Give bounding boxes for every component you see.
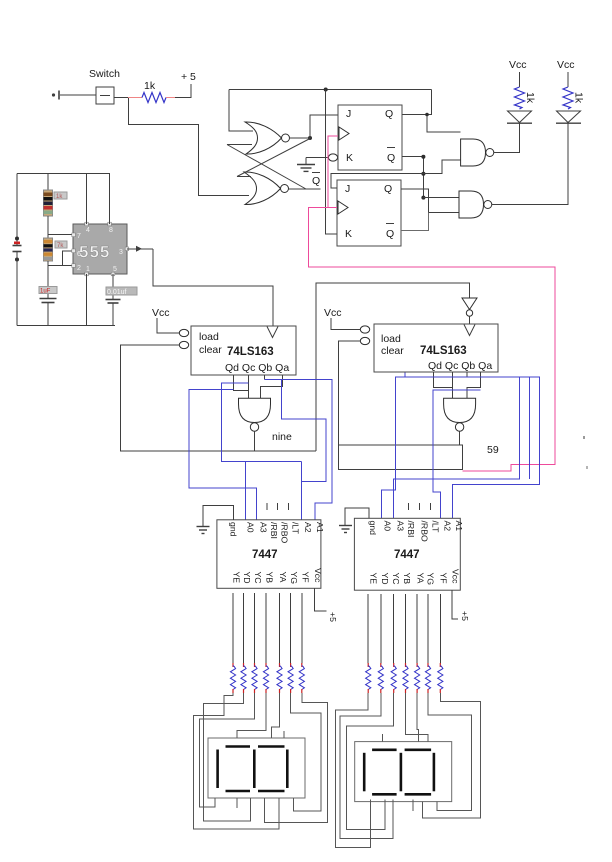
blue Qc to A3 digit2 <box>394 377 520 518</box>
wire 555 pin7 <box>48 234 73 236</box>
wires 7447 U10 outputs to resistors <box>233 593 302 664</box>
wire Qd stub U8 <box>434 372 453 388</box>
svg-text:Vcc: Vcc <box>557 59 575 71</box>
wire YF wrap DS2 <box>423 693 481 818</box>
wire Vcc to load oval <box>157 318 180 333</box>
NAND gate U9 59 detect <box>444 398 499 456</box>
capacitor C1 <box>39 266 57 326</box>
svg-text:YF: YF <box>439 573 449 584</box>
wire YB to DS1 top <box>237 693 266 738</box>
wire YD wrap DS1 <box>204 693 251 821</box>
wire NANDB out to LED2 <box>492 123 568 204</box>
stray mark right margin b <box>586 466 588 469</box>
wire FF1 Qbar net <box>402 157 423 198</box>
svg-text:5: 5 <box>113 266 117 273</box>
wire NANDA out to LED1 <box>494 123 520 152</box>
wire YA to DS1 top <box>271 693 279 738</box>
svg-text:nine: nine <box>272 431 292 443</box>
svg-text:Q: Q <box>385 108 393 120</box>
svg-text:Vcc: Vcc <box>509 59 527 71</box>
counter 74LS163 U8 <box>374 324 498 372</box>
label Qbar latch <box>312 173 320 188</box>
wire 555 left rail lower <box>16 252 18 326</box>
pin stub DS2 bottom <box>412 799 414 810</box>
wire NOR1 output to node <box>290 137 311 139</box>
svg-text:/RBO: /RBO <box>420 521 430 542</box>
wire battery to switch <box>60 94 96 96</box>
svg-text:1k: 1k <box>144 80 156 92</box>
svg-text:YE: YE <box>369 573 379 585</box>
svg-text:7: 7 <box>77 233 81 240</box>
svg-text:6: 6 <box>77 251 81 258</box>
wire 555 pin1 to rail <box>86 274 88 326</box>
wire NOR1 inputs <box>227 90 253 145</box>
svg-text:YG: YG <box>426 573 436 586</box>
svg-text:gnd: gnd <box>229 522 239 537</box>
pin stub LT U11 <box>430 503 432 510</box>
svg-text:YC: YC <box>253 572 263 584</box>
blue Qa to A2 digit2 <box>433 390 481 518</box>
wire 555 left rail upper <box>16 174 18 246</box>
wire FF2 Q to NAND B input2 <box>401 189 460 212</box>
svg-text:clear: clear <box>199 344 222 356</box>
wire NOR2 input stub <box>237 176 251 178</box>
resistor R2 1k vertical <box>515 87 537 109</box>
svg-text:gnd: gnd <box>368 521 378 536</box>
svg-text:K: K <box>346 152 353 164</box>
wire YE wrap DS2 <box>336 693 371 848</box>
svg-text:Vcc: Vcc <box>313 568 323 583</box>
svg-text:0.01uf: 0.01uf <box>107 289 127 296</box>
capacitor C2 0.01uF <box>106 274 138 326</box>
wire Vcc2 to load oval <box>331 318 361 330</box>
wires 7447 U11 outputs to resistors <box>368 594 440 664</box>
resistor R5 color bands <box>44 238 68 261</box>
blue Qd to A3 digit1 <box>189 390 257 520</box>
svg-text:YE: YE <box>232 572 242 584</box>
svg-text:clear: clear <box>381 345 404 357</box>
wire carry to counter2 clock <box>316 283 470 451</box>
svg-text:7447: 7447 <box>394 549 420 561</box>
svg-text:Vcc: Vcc <box>451 569 461 584</box>
wire clear2 feedback <box>339 341 463 469</box>
wire Qc stub U8 <box>451 372 453 398</box>
LED D1 <box>507 111 532 123</box>
wire Qa stub U5 <box>261 375 283 398</box>
svg-text:YB: YB <box>265 572 275 584</box>
pin stub DS1 bottom <box>236 798 238 808</box>
svg-text:Qd Qc Qb Qa: Qd Qc Qb Qa <box>225 362 289 374</box>
svg-text:1: 1 <box>86 266 90 273</box>
svg-text:+5: +5 <box>328 612 338 622</box>
wire Qa stub U8 <box>467 372 481 398</box>
svg-text:A3: A3 <box>396 521 406 532</box>
svg-text:1k: 1k <box>56 194 63 200</box>
svg-text:59: 59 <box>487 444 499 456</box>
svg-text:7k: 7k <box>57 243 64 249</box>
display DS1 seven segment <box>208 738 305 798</box>
wire 555 top rail <box>17 173 110 175</box>
svg-text:A2: A2 <box>303 522 313 533</box>
bubble load U8 <box>360 326 369 333</box>
NAND gate U3A <box>461 139 494 166</box>
wire clear feedback left <box>121 345 316 451</box>
wire Qb stub U8 <box>466 372 468 377</box>
wire Qbar to NAND A input2 <box>423 160 460 174</box>
wire node up to FF1 J <box>310 115 338 138</box>
svg-text:YF: YF <box>300 572 310 583</box>
blue branch column digit2 <box>528 377 530 479</box>
wire YE wrap DS1 <box>194 693 280 829</box>
svg-text:Q: Q <box>312 175 320 187</box>
NAND gate U3B <box>459 191 492 218</box>
ground digit1 <box>197 506 234 534</box>
timer 555 U4 <box>72 222 129 276</box>
Vcc LED2 <box>557 59 575 87</box>
svg-text:K: K <box>345 228 352 240</box>
pin stub LT U10 <box>288 503 290 510</box>
svg-text:YA: YA <box>278 572 288 583</box>
ground digit2 <box>339 508 369 533</box>
wire Vcc to 555 pins 4 8 <box>87 174 110 225</box>
wire FF2 Qbar stub <box>401 213 429 231</box>
svg-text:A1: A1 <box>315 522 325 533</box>
wire R4 top lead <box>47 174 49 191</box>
wire cross-coupling diagonal NOR2out to NOR1 in <box>227 145 306 190</box>
ground near FF1 K <box>297 158 315 172</box>
wire 555 output pin3 <box>127 246 273 326</box>
svg-text:YG: YG <box>289 572 299 585</box>
svg-text:A0: A0 <box>246 522 256 533</box>
wire long vertical node to FF2 K <box>326 90 337 235</box>
svg-text:YB: YB <box>402 573 412 585</box>
inverter U6 <box>462 298 477 324</box>
NOR gate U1A (upper) <box>245 122 290 154</box>
resistor R1 1k <box>128 80 175 103</box>
battery / input terminal <box>52 91 59 100</box>
capacitor C0 electrolytic on left rail <box>13 237 22 262</box>
stray mark right margin a <box>583 436 585 439</box>
svg-text:A1: A1 <box>454 521 464 532</box>
wire resistor to +5 <box>175 84 191 98</box>
pin ticks U10 bottom <box>0 0 1 1</box>
svg-text:YD: YD <box>380 573 390 585</box>
wire Qb stub U5 <box>263 375 265 380</box>
resistor row digit2 <box>366 663 443 693</box>
wire YC wrap DS1 <box>200 693 255 807</box>
resistor row digit1 <box>230 663 304 693</box>
wire clock pink net <box>309 136 556 471</box>
svg-text:A0: A0 <box>383 521 393 532</box>
wire YF wrap DS1 <box>265 693 328 823</box>
svg-text:Q: Q <box>387 152 395 164</box>
wire Qc stub U5 <box>248 375 250 398</box>
svg-text:load: load <box>381 333 401 345</box>
wire nine out <box>254 431 256 451</box>
svg-text:4: 4 <box>86 227 90 234</box>
svg-text:1uF: 1uF <box>40 289 51 295</box>
svg-text:Vcc: Vcc <box>324 307 342 319</box>
pin stub RBO U11 <box>419 503 421 510</box>
svg-text:Q: Q <box>384 183 392 195</box>
svg-text:Vcc: Vcc <box>152 307 170 319</box>
wire YG wrap DS1 <box>291 693 321 811</box>
bubble load U5 <box>179 329 188 336</box>
wire Qbar to NAND B input1 <box>423 197 460 199</box>
switch S1 <box>89 68 120 104</box>
wire YA to DS2 top <box>417 693 418 742</box>
Vcc LED1 <box>509 59 527 87</box>
svg-text:J: J <box>346 108 351 120</box>
svg-text:555: 555 <box>79 243 110 262</box>
pin stub RBI U11 <box>408 503 410 510</box>
node FF1 Qbar b <box>421 172 425 176</box>
blue A2 column digit1 <box>301 462 303 520</box>
wire NOR2 output <box>289 188 321 190</box>
pin stub DS2 top <box>381 734 383 742</box>
node FF1 Qbar c <box>421 196 425 200</box>
pin stub RBO U10 <box>277 503 279 510</box>
wire YB to DS2 top <box>406 693 429 742</box>
wire switch node down to NOR2 input <box>129 98 250 196</box>
NAND gate U7 nine detect <box>239 398 293 443</box>
blue Qb to A1 digit2 <box>452 377 539 519</box>
svg-text:74LS163: 74LS163 <box>420 345 467 357</box>
svg-text:1k: 1k <box>524 92 536 104</box>
svg-text:+ 5: + 5 <box>181 71 196 83</box>
blue Qb to A1 digit1 <box>264 380 332 520</box>
svg-text:/LT: /LT <box>431 521 441 534</box>
wire R5 bottom to pins 2 6 <box>48 251 73 266</box>
svg-text:Qd Qc Qb Qa: Qd Qc Qb Qa <box>428 360 492 372</box>
wire Qd stub U5 <box>234 375 249 390</box>
JK flip-flop U2A <box>338 105 402 170</box>
svg-text:/LT: /LT <box>291 522 301 535</box>
blue A0 drop digit1 <box>245 462 247 520</box>
bubble clear U5 <box>179 341 188 348</box>
decoder 7447 U10 <box>217 520 325 589</box>
wire Qbar to FF2 J <box>331 174 423 188</box>
svg-text:YD: YD <box>242 572 252 584</box>
wire YD wrap DS2 <box>340 693 393 839</box>
svg-text:7447: 7447 <box>252 549 278 561</box>
node top loop <box>324 88 328 92</box>
svg-text:/RBI: /RBI <box>269 522 279 539</box>
bubble clear U8 <box>360 337 369 344</box>
blue Qd to A0 digit2 <box>381 373 519 519</box>
svg-text:1k: 1k <box>573 92 585 104</box>
svg-text:Q: Q <box>386 228 394 240</box>
svg-text:YA: YA <box>416 573 426 584</box>
node FF1 Qbar a <box>421 155 425 159</box>
svg-text:2: 2 <box>77 265 81 272</box>
svg-text:YC: YC <box>391 573 401 585</box>
resistor R3 1k vertical <box>563 87 585 109</box>
blue Qc to A0 digit1 <box>222 383 302 462</box>
wire 59 out <box>459 431 461 445</box>
pin stub RBI U10 <box>266 503 268 510</box>
wire top feedback loop FF1 Q to NOR1 <box>229 90 432 115</box>
wire FF1 Q to NAND A input1 <box>427 115 461 132</box>
decoder 7447 U11 <box>354 518 464 590</box>
svg-text:A3: A3 <box>259 522 269 533</box>
wire cross-coupling diagonal NOR1out to NOR2 in <box>237 139 310 177</box>
JK flip-flop U2B <box>337 180 401 246</box>
wire 555 bottom rail <box>17 325 115 327</box>
svg-text:/RBI: /RBI <box>406 521 416 538</box>
wire switch to node <box>114 97 129 99</box>
pin stub DS1 top <box>283 731 285 738</box>
resistor R4 color bands <box>44 190 68 216</box>
svg-text:74LS163: 74LS163 <box>227 346 274 358</box>
wire YG wrap DS2 <box>428 693 472 811</box>
wire R4 to R5 <box>47 216 49 238</box>
wire Vcc pin U10 to +5 <box>315 588 339 622</box>
display DS2 seven segment <box>355 742 452 802</box>
svg-text:A2: A2 <box>443 521 453 532</box>
svg-text:load: load <box>199 331 219 343</box>
counter 74LS163 U5 <box>191 326 296 375</box>
node NOR1 out <box>308 136 312 140</box>
wire YC wrap DS2 <box>346 693 393 830</box>
wire ground to FF1 K with bubble <box>306 154 338 161</box>
svg-text:J: J <box>345 183 350 195</box>
wire Vcc pin U11 to +5 <box>452 590 470 621</box>
svg-text:8: 8 <box>109 227 113 234</box>
svg-text:Switch: Switch <box>89 68 120 80</box>
svg-text:3: 3 <box>119 249 123 256</box>
blue Qa to A2 digit1 <box>282 380 327 520</box>
svg-text:+5: +5 <box>460 611 470 621</box>
svg-text:/RBO: /RBO <box>280 522 290 543</box>
NOR gate U1B (lower) <box>244 172 289 205</box>
LED D2 <box>556 111 581 123</box>
